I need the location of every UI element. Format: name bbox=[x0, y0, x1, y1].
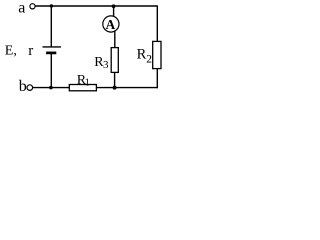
wire right branch lower bbox=[156, 68, 158, 88]
wire right branch upper bbox=[156, 6, 158, 42]
resistor R1 bbox=[69, 85, 96, 91]
svg-text:2: 2 bbox=[146, 54, 152, 66]
junction dot battery bottom bbox=[49, 86, 53, 90]
wire battery top lead bbox=[50, 6, 52, 47]
svg-text:a: a bbox=[18, 0, 25, 17]
resistor R3 bbox=[111, 48, 118, 73]
battery E r long plate bbox=[43, 46, 61, 48]
svg-text:3: 3 bbox=[103, 59, 109, 71]
battery E r short plate bbox=[46, 52, 56, 55]
wire ammeter top lead bbox=[113, 6, 115, 18]
svg-text:b: b bbox=[19, 78, 27, 95]
svg-text:R: R bbox=[137, 47, 147, 63]
wire bottom bbox=[33, 87, 158, 89]
svg-text:1: 1 bbox=[85, 77, 90, 88]
terminal b bbox=[27, 85, 33, 91]
junction dot battery top bbox=[50, 4, 53, 7]
svg-text:E,: E, bbox=[5, 44, 17, 59]
resistor R2 bbox=[153, 41, 161, 68]
ammeter A bbox=[103, 16, 119, 32]
junction dot R3 bottom bbox=[113, 86, 117, 90]
wire battery bottom lead bbox=[50, 53, 52, 87]
wire top bbox=[35, 5, 158, 7]
svg-text:A: A bbox=[106, 17, 116, 32]
svg-text:r: r bbox=[28, 43, 33, 59]
wire R3 bottom lead bbox=[114, 72, 116, 87]
junction dot ammeter top bbox=[112, 4, 116, 8]
wire ammeter to R3 bbox=[114, 30, 116, 48]
terminal a bbox=[30, 4, 35, 9]
